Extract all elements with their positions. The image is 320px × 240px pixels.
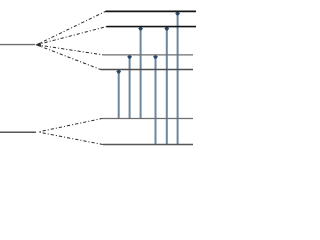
dash-dot connector L2 to E: [38, 119, 102, 133]
transition arrow T5 (F to B): [164, 27, 169, 146]
level C (third split sublevel, right): [103, 54, 193, 56]
level L1 (unsplit upper state, left): [0, 44, 35, 46]
level A (top split sublevel, right): [106, 10, 197, 12]
level B (second split sublevel, right): [107, 26, 197, 28]
level L2 (unsplit lower state, left): [0, 131, 36, 133]
transition arrow T2 (E to C): [127, 55, 132, 119]
top fan origin dash cluster: [35, 42, 41, 47]
transition arrow T6 (F to A): [175, 11, 180, 145]
dash-dot connector L1 to A: [37, 11, 106, 44]
dash-dot connector L1 to D: [37, 45, 101, 70]
dash-dot connector L2 to F: [38, 132, 103, 145]
transition arrow T4 (F to C): [153, 55, 158, 145]
dash-dot connector L1 to C: [37, 45, 104, 55]
level F (bottom lower-state sublevel, right): [103, 144, 193, 146]
dash-dot connector L1 to B: [37, 27, 107, 45]
transition arrow T1 (E to D): [116, 70, 121, 120]
transition arrow T3 (E to B): [138, 27, 143, 120]
level E (upper lower-state sublevel, right): [102, 118, 193, 120]
level D (fourth split sublevel, right): [101, 69, 194, 71]
